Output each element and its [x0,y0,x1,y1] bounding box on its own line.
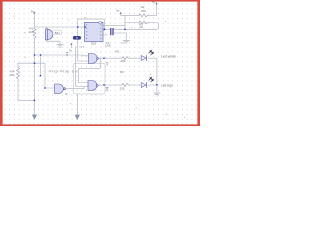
svg-text:U2:A: U2:A [80,45,85,48]
svg-text:Led rojo: Led rojo [161,84,173,88]
svg-text:5v: 5v [31,9,35,13]
svg-text:R5: R5 [116,50,120,54]
svg-text:330: 330 [120,86,125,90]
svg-text:Q: Q [106,61,109,65]
svg-text:BZ1: BZ1 [55,31,61,35]
svg-text:22K: 22K [141,9,146,13]
svg-text:10K: 10K [9,73,14,77]
svg-text:10uF: 10uF [105,45,111,48]
svg-text:S: S [66,53,68,57]
svg-text:555: 555 [91,41,96,45]
svg-text:R6: R6 [120,70,124,74]
svg-text:Q: Q [106,88,109,92]
svg-text:5v: 5v [116,9,120,13]
svg-text:330: 330 [120,59,125,63]
svg-text:1K: 1K [139,25,143,29]
svg-text:Flip-Flop s-r: Flip-Flop s-r [50,70,79,74]
svg-text:10K: 10K [29,30,34,34]
svg-text:Led verde: Led verde [161,54,176,58]
